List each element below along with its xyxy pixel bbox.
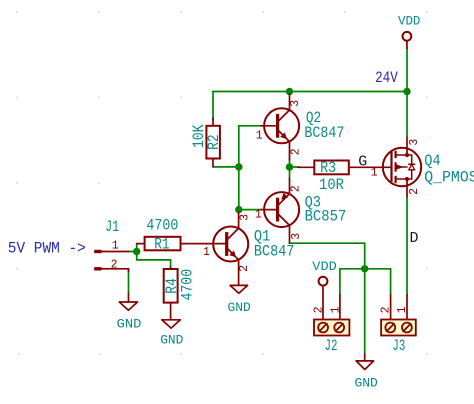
junction Q2 emitter R3 Q3 emitter (286, 163, 293, 170)
svg-text:2: 2 (408, 188, 421, 195)
wire junction horizontal J2pin1 to J3pin2 (340, 268, 391, 270)
svg-text:2: 2 (380, 306, 393, 313)
junction J2/J3/GND node (361, 265, 368, 272)
wire J1 pin2 down to GND (128, 270, 130, 294)
power symbol VDD mid (319, 277, 328, 320)
junction J1/R1/R4 (133, 248, 140, 255)
wire bottom GND drop (364, 269, 366, 355)
ground symbol below Q1 (230, 285, 248, 293)
svg-text:3: 3 (289, 100, 302, 107)
transistor Q4 P-MOSFET (383, 138, 421, 198)
ground symbol below R4 (162, 320, 181, 328)
svg-text:2: 2 (238, 265, 251, 272)
svg-text:Q_PMOS: Q_PMOS (424, 169, 474, 187)
wire center column vertical (238, 126, 240, 210)
svg-text:J3: J3 (392, 337, 405, 355)
svg-text:3: 3 (239, 214, 252, 221)
wire R2 bottom to column (213, 166, 239, 168)
svg-text:5V PWM ->: 5V PWM -> (8, 239, 86, 257)
resistor R4 (164, 269, 178, 303)
wire Q2 base (239, 125, 262, 127)
svg-text:1: 1 (112, 239, 119, 252)
resistor R1 leads (137, 243, 145, 245)
svg-text:1: 1 (256, 129, 263, 142)
svg-text:4700: 4700 (146, 216, 178, 234)
resistor R3 (314, 161, 349, 175)
svg-text:D: D (410, 230, 419, 247)
ground symbol bottom center (356, 354, 374, 370)
wire top horizontal 24V rail (213, 91, 407, 93)
resistor R2 leads (212, 118, 214, 126)
resistor R2 (206, 126, 220, 159)
svg-text:2: 2 (290, 185, 303, 192)
transistor Q1 (213, 213, 248, 286)
wire Q4 source from rail (406, 92, 408, 138)
svg-text:Q4: Q4 (424, 152, 440, 170)
svg-text:24V: 24V (375, 69, 398, 87)
wire junction up to R1 (136, 244, 138, 252)
svg-text:2: 2 (290, 148, 303, 155)
svg-text:1: 1 (371, 167, 378, 180)
svg-text:1: 1 (396, 306, 409, 313)
transistor Q3 (261, 179, 299, 244)
wire J1 pin1 to junction (128, 251, 137, 253)
power symbol VDD top (403, 32, 412, 49)
svg-text:BC847: BC847 (304, 124, 344, 142)
svg-text:J2: J2 (325, 337, 338, 355)
connector J2 pin leads (339, 295, 341, 320)
junction Q1 collector Q3 base (235, 206, 242, 213)
wire Q3 emitter stub (289, 167, 291, 179)
svg-text:R3: R3 (320, 159, 336, 177)
resistor R4 leads (170, 267, 172, 269)
svg-text:VDD: VDD (398, 14, 421, 29)
junction R2 bottom column (235, 163, 242, 170)
connector J1 pin 2 (94, 269, 128, 272)
svg-text:R1: R1 (154, 235, 169, 253)
wire VDD top stem (406, 48, 408, 92)
svg-text:1: 1 (255, 209, 262, 222)
wire Q3 collector to J2/J3 junction (290, 243, 365, 269)
svg-text:GND: GND (117, 316, 142, 331)
svg-text:R2: R2 (205, 134, 223, 150)
wire J3 pin2 drop (390, 269, 392, 295)
svg-text:BC847: BC847 (254, 243, 295, 261)
svg-text:G: G (358, 154, 367, 171)
svg-text:BC857: BC857 (305, 207, 347, 225)
svg-text:2: 2 (312, 306, 325, 313)
resistor R3 leads (298, 166, 314, 168)
svg-text:1: 1 (329, 306, 342, 313)
svg-text:10R: 10R (319, 176, 344, 194)
svg-text:J1: J1 (105, 218, 119, 236)
connector J1 pin 1 (94, 250, 128, 253)
svg-text:GND: GND (160, 333, 183, 348)
junction Q2 collector rail (286, 88, 293, 95)
transistor Q2 (261, 94, 299, 160)
svg-text:3: 3 (290, 233, 303, 240)
ground symbol below J1 pin 2 (119, 294, 137, 311)
svg-text:GND: GND (228, 300, 251, 315)
resistor R1 (145, 237, 181, 251)
wire J2 pin1 drop (339, 269, 341, 295)
junction VDD rail Q4 (403, 88, 410, 95)
wire Q3 base (239, 209, 262, 211)
wire Q4 drain to J3 pin1 (406, 197, 408, 295)
svg-text:1: 1 (203, 246, 210, 259)
svg-text:3: 3 (408, 139, 421, 146)
svg-text:VDD: VDD (312, 259, 337, 274)
wire Q2 emitter stub (289, 160, 291, 168)
svg-text:2: 2 (111, 258, 118, 271)
svg-text:4700: 4700 (179, 269, 197, 301)
svg-text:GND: GND (355, 375, 378, 390)
connector J3 pin leads (391, 295, 407, 320)
connector J2 body (314, 320, 349, 336)
wire R2 top drop (212, 92, 214, 120)
wire junction to R3 (290, 166, 300, 168)
wire junction to R4 top (137, 252, 171, 269)
connector J3 body (381, 320, 416, 336)
